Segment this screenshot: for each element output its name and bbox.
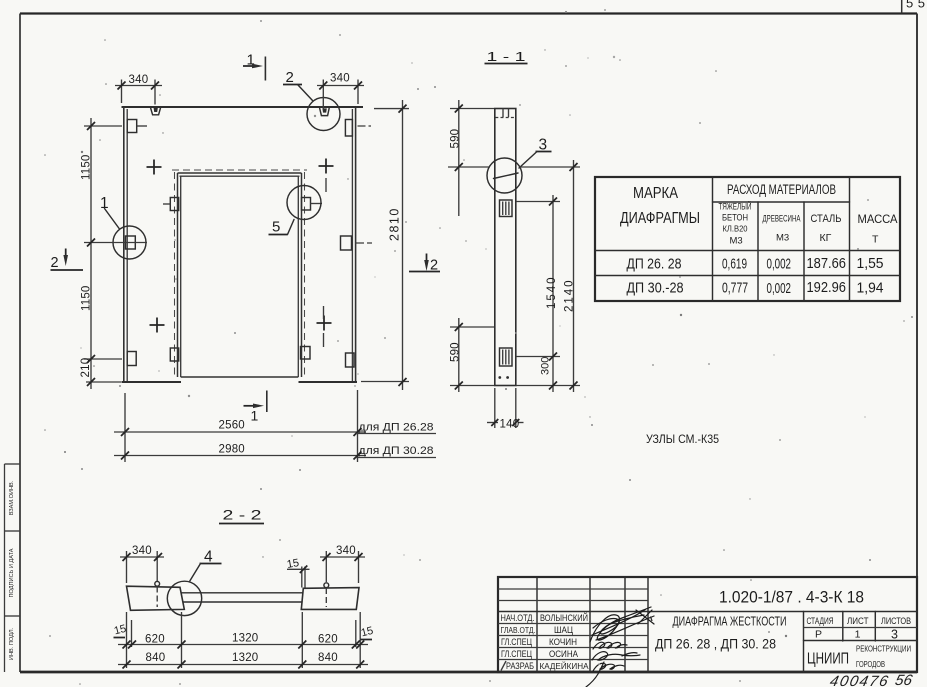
svg-text:М3: М3: [776, 233, 789, 244]
svg-text:5: 5: [272, 219, 280, 236]
detail circle 1: [113, 226, 146, 259]
svg-text:ЛИСТОВ: ЛИСТОВ: [881, 616, 911, 627]
svg-text:840: 840: [146, 652, 166, 664]
svg-text:М3: М3: [730, 236, 743, 247]
leg bottoms: [122, 381, 182, 383]
svg-text:РЕКОНСТРУКЦИИ: РЕКОНСТРУКЦИИ: [856, 645, 911, 654]
detail circle 5: [287, 186, 321, 220]
verticals left table: [536, 577, 538, 672]
crosses: [147, 160, 162, 175]
svg-text:ВЗАМ.ОИНВ.: ВЗАМ.ОИНВ.: [9, 480, 15, 515]
svg-text:ИНВ. ПОДЛ.: ИНВ. ПОДЛ.: [9, 627, 15, 660]
svg-text:55: 55: [906, 0, 927, 11]
svg-text:340: 340: [336, 545, 356, 557]
embedded plate bottom (hatched): [500, 348, 513, 366]
loops side view: [155, 581, 160, 586]
svg-text:ТЯЖЕЛЫЙ: ТЯЖЕЛЫЙ: [719, 201, 752, 212]
embedded plates door jambs: [170, 198, 178, 211]
svg-text:СТАЛЬ: СТАЛЬ: [811, 213, 842, 225]
svg-text:590: 590: [450, 129, 462, 149]
svg-text:2: 2: [51, 255, 59, 271]
joint line: [494, 173, 519, 179]
embedded plates left edge: [127, 120, 137, 133]
svg-text:ОСИНА: ОСИНА: [549, 649, 578, 659]
section 1-1: [448, 49, 580, 431]
dim 140 bottom: [494, 388, 496, 428]
dim 2810 right: [402, 100, 404, 390]
title block: [498, 577, 917, 687]
svg-text:590: 590: [449, 342, 461, 362]
handwritten number: [828, 672, 914, 687]
note text: [646, 434, 719, 446]
svg-text:ГОРОДОВ: ГОРОДОВ: [856, 660, 885, 669]
svg-text:УЗЛЫ СМ.-К35: УЗЛЫ СМ.-К35: [646, 434, 719, 446]
dim 340 top left: [115, 85, 162, 87]
section mark 1 bottom: [244, 405, 260, 407]
signatures: [590, 607, 654, 642]
svg-text:ДП 30.-28: ДП 30.-28: [627, 280, 684, 297]
svg-text:187.66: 187.66: [807, 255, 847, 272]
svg-text:Т: Т: [872, 234, 879, 246]
sheet number cell top right: [901, 0, 903, 14]
svg-text:0,777: 0,777: [722, 280, 748, 297]
right section: [803, 612, 805, 673]
svg-text:КОЧИН: КОЧИН: [549, 637, 577, 647]
bottom dots: [498, 376, 501, 379]
materials table: [595, 177, 900, 301]
svg-text:Р: Р: [815, 629, 822, 641]
horizontals: [498, 588, 648, 590]
svg-text:210: 210: [80, 358, 92, 378]
svg-text:для ДП 26.28: для ДП 26.28: [359, 422, 434, 434]
dim 340 right: [320, 556, 365, 558]
svg-text:1.020-1/87 . 4-3-К 18: 1.020-1/87 . 4-3-К 18: [719, 588, 864, 607]
svg-text:ШАЦ: ШАЦ: [554, 625, 573, 635]
embedded plates right edge: [345, 120, 352, 137]
dim 340 left: [120, 556, 164, 558]
svg-text:1,55: 1,55: [857, 255, 884, 272]
svg-text:2980: 2980: [219, 444, 245, 456]
svg-text:1: 1: [855, 629, 861, 641]
panel left edge (double): [123, 107, 125, 382]
svg-text:1150: 1150: [81, 285, 93, 311]
svg-text:БЕТОН: БЕТОН: [722, 213, 748, 223]
panel right edge (double): [355, 107, 357, 382]
svg-text:2810: 2810: [388, 207, 402, 241]
svg-text:0,619: 0,619: [722, 256, 747, 273]
bottom dim row 1: [126, 612, 128, 668]
svg-text:340: 340: [330, 73, 350, 85]
svg-text:2560: 2560: [219, 420, 245, 432]
bottom width dims: [124, 393, 126, 462]
svg-text:МАССА: МАССА: [858, 214, 898, 226]
left flange: [127, 586, 185, 610]
svg-text:840: 840: [318, 652, 338, 664]
svg-text:ГЛ.СПЕЦ: ГЛ.СПЕЦ: [501, 649, 532, 659]
svg-text:ДП 26. 28: ДП 26. 28: [627, 256, 682, 273]
svg-text:РАЗРАБ: РАЗРАБ: [506, 661, 534, 671]
detail circle 4: [167, 581, 201, 615]
svg-text:1150: 1150: [81, 154, 93, 180]
right ext lines: [520, 166, 580, 168]
svg-text:ДИАФРАГМА ЖЕСТКОСТИ: ДИАФРАГМА ЖЕСТКОСТИ: [673, 615, 787, 629]
right flange: [301, 588, 359, 610]
web: [181, 592, 302, 594]
svg-text:300: 300: [540, 357, 552, 375]
svg-text:ДИАФРАГМЫ: ДИАФРАГМЫ: [620, 210, 700, 227]
svg-text:КАДЕЙКИНА: КАДЕЙКИНА: [540, 660, 589, 671]
door opening: [178, 172, 302, 174]
section 2-2: [113, 507, 375, 669]
svg-text:192.96: 192.96: [807, 279, 847, 296]
dim 340 top right: [317, 85, 364, 87]
left dim 590 top: [458, 100, 460, 216]
svg-text:1: 1: [251, 408, 259, 424]
detail circle 3: [487, 158, 522, 193]
svg-text:ПОДПИСЬ И ДАТА: ПОДПИСЬ И ДАТА: [9, 548, 15, 597]
svg-text:ДРЕВЕСИНА: ДРЕВЕСИНА: [763, 214, 801, 224]
svg-text:340: 340: [132, 545, 152, 557]
svg-text:ЦНИИП: ЦНИИП: [807, 651, 849, 668]
svg-text:НАЧ.ОТД.: НАЧ.ОТД.: [501, 613, 535, 623]
svg-text:1 - 1: 1 - 1: [487, 49, 526, 64]
svg-text:МАРКА: МАРКА: [633, 185, 678, 202]
svg-text:620: 620: [145, 634, 165, 646]
svg-text:для ДП 30.28: для ДП 30.28: [359, 445, 434, 457]
bottom dim row 2: [118, 664, 368, 666]
svg-text:ЛИСТ: ЛИСТ: [847, 616, 869, 627]
svg-text:1320: 1320: [232, 652, 258, 664]
left attribute strip: [5, 464, 21, 672]
lifting loop right (in circle 2): [320, 108, 330, 116]
svg-text:2140: 2140: [564, 278, 576, 312]
main front view: [51, 52, 441, 424]
panel top edge: [122, 106, 364, 108]
svg-text:0,002: 0,002: [767, 256, 792, 273]
section mark 2 right: [426, 254, 428, 265]
svg-text:1,94: 1,94: [857, 280, 884, 297]
svg-text:ГЛАВ.ОТД.: ГЛАВ.ОТД.: [501, 625, 536, 635]
svg-text:340: 340: [129, 74, 149, 86]
column outline: [495, 109, 516, 386]
svg-text:ДП 26. 28 , ДП 30. 28: ДП 26. 28 , ДП 30. 28: [655, 637, 776, 652]
svg-text:КГ: КГ: [820, 232, 832, 244]
dimensions main view: [80, 73, 436, 463]
dashed contour around door: [172, 169, 307, 171]
svg-text:0,002: 0,002: [767, 280, 792, 297]
svg-text:15: 15: [286, 557, 300, 571]
dim line 1540/300: [552, 195, 554, 392]
svg-text:ГЛ.СПЕЦ: ГЛ.СПЕЦ: [501, 637, 532, 647]
svg-text:3: 3: [891, 628, 898, 642]
svg-text:РАСХОД МАТЕРИАЛОВ: РАСХОД МАТЕРИАЛОВ: [727, 182, 836, 197]
svg-text:1540: 1540: [546, 275, 558, 309]
svg-text:СТАДИЯ: СТАДИЯ: [807, 616, 834, 627]
svg-text:2: 2: [286, 69, 294, 86]
detail circle 2: [307, 98, 340, 131]
svg-text:140: 140: [500, 419, 520, 431]
svg-text:1320: 1320: [232, 633, 258, 645]
dim line 2140: [573, 160, 575, 392]
dim 15 mid: [301, 567, 303, 588]
svg-text:КЛ.В20: КЛ.В20: [723, 224, 748, 234]
left dim chain 1150/1150/210: [90, 118, 92, 389]
svg-text:400476: 400476: [828, 673, 891, 687]
svg-text:2 - 2: 2 - 2: [223, 507, 262, 523]
lifting loop left: [151, 108, 161, 115]
embedded plate top (hatched): [500, 200, 513, 217]
top loop channel: [502, 109, 504, 118]
left dim 590 bottom: [458, 318, 460, 392]
svg-text:ВОЛЫНСКИЙ: ВОЛЫНСКИЙ: [540, 612, 588, 623]
svg-text:620: 620: [318, 634, 338, 646]
